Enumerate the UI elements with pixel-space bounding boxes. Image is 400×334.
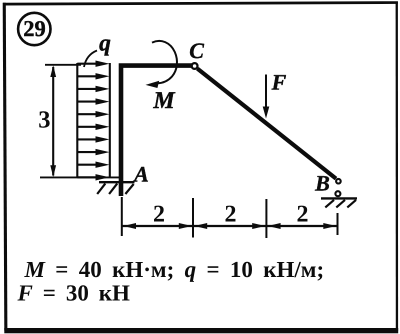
svg-text:F = 30 кН: F = 30 кН (17, 281, 131, 306)
svg-text:C: C (189, 38, 204, 63)
distributed load q right edge (109, 63, 111, 177)
roller B (335, 191, 340, 196)
distributed load q arrows (77, 61, 109, 181)
column A-corner and beam to C (121, 66, 192, 196)
svg-text:2: 2 (153, 202, 165, 228)
dimension 3 line (52, 67, 54, 176)
svg-text:A: A (132, 162, 149, 187)
svg-text:2: 2 (297, 202, 309, 228)
dimension arrowheads segment 3 (268, 223, 337, 229)
page border right (396, 2, 399, 332)
svg-text:29: 29 (23, 16, 46, 41)
svg-text:3: 3 (38, 107, 50, 134)
pin B (336, 179, 341, 184)
dimension 3 arrow down (50, 165, 56, 177)
support A ground line (99, 181, 135, 183)
member C to B (197, 69, 336, 179)
moment M arrowhead (146, 81, 160, 88)
bottom dimension tick 1 (under A) (121, 197, 123, 236)
support A hatching (97, 184, 134, 194)
dimension 3 top extension line (45, 64, 81, 66)
bottom dimension tick 2 (192, 198, 194, 238)
page border left (3, 3, 8, 331)
bottom dimension tick 3 (265, 199, 267, 238)
svg-text:M = 40 кН·м; q = 10 кН/м;: M = 40 кН·м; q = 10 кН/м; (24, 257, 325, 282)
bottom dimension tick 4 (under B) (337, 213, 339, 235)
force F arrowhead (263, 107, 270, 119)
load label q leader line (84, 51, 97, 68)
dimension arrowheads segment 2 (194, 223, 265, 229)
support B ground line (321, 197, 357, 199)
svg-text:q: q (99, 31, 111, 57)
svg-text:F: F (271, 70, 287, 95)
pin C (192, 63, 198, 69)
dimension arrowheads segment 1 (123, 223, 192, 229)
distributed load q left edge (76, 63, 78, 177)
problem number badge circle (18, 13, 50, 45)
support B hatching (325, 200, 356, 208)
force F arrow shaft (265, 75, 267, 110)
dimension 3 bottom extension line (40, 176, 121, 178)
svg-text:B: B (314, 170, 330, 195)
dimension 3 arrow up (50, 65, 56, 77)
moment M arc (152, 41, 177, 83)
svg-text:M: M (152, 88, 176, 114)
bottom dimension line (122, 225, 338, 227)
svg-text:2: 2 (225, 202, 237, 228)
page border top (3, 1, 398, 5)
page border bottom (4, 328, 398, 333)
